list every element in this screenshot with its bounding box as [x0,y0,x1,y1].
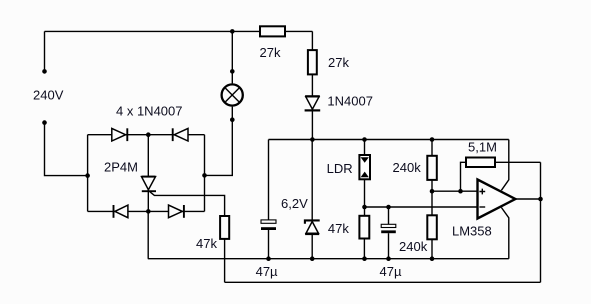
node lamp top terminal [230,69,235,74]
svg-text:47µ: 47µ [256,264,278,279]
wire top bus [45,30,313,32]
node plus line at feedback [458,189,463,194]
wire bridge left edge [87,135,89,212]
wire 240k bottom to ground bus [431,239,433,258]
svg-text:LM358: LM358 [452,223,492,238]
node inverting line at cap2 [386,205,391,210]
node V+ rail at zener [310,137,315,142]
node terminal 240V bottom [42,120,47,125]
node bridge bottom center [146,209,151,214]
node ground bus cap1 [266,256,271,261]
svg-text:240V: 240V [33,87,64,102]
node inverting line at LDR [362,205,367,210]
svg-text:5,1M: 5,1M [468,139,497,154]
diode D2 bridge top-right [173,128,188,141]
node terminal 240V top [42,69,47,74]
svg-text:4 x 1N4007: 4 x 1N4007 [116,104,183,119]
node ground bus zener [310,256,315,261]
wire left terminal drop [44,31,46,71]
node ground bus 47k2 [362,256,367,261]
resistor R1 27k horizontal [260,26,285,36]
wire thyristor cathode to bottom bus [147,211,149,258]
wire op-amp output [515,198,540,200]
wire lamp branch lower to bridge right [205,107,233,176]
svg-text:2P4M: 2P4M [104,159,138,174]
wire output drop [540,162,542,282]
wire LDR to 47k2 [364,179,366,216]
node junction top bus lamp [230,29,235,34]
wire zener to ground bus [311,234,313,259]
diode D4 bridge bottom-right [169,205,184,218]
wire LDR branch [364,140,366,156]
node bridge right mid [202,173,207,178]
svg-text:47µ: 47µ [380,264,402,279]
wire cap1 to ground bus [268,230,270,259]
thyristor Q1 2P4M [142,177,157,192]
wire non-inverting input line [432,190,478,192]
resistor R3 47k gate [220,216,229,239]
wire inverting input line [365,206,478,208]
wire feedback resistor left leg [461,162,467,191]
wire gate from thyristor to 47k [150,192,225,216]
wire op-amp V+ pin [501,140,508,191]
capacitor C1 47u [261,220,276,230]
node output [538,197,543,202]
wire 240k top branch [431,140,433,156]
diode D5 1N4007 series [305,96,321,110]
capacitor C2 47u [381,224,396,233]
resistor R4 47k divider [359,216,369,239]
wire 47k bottom to feedback bus [224,239,226,282]
svg-text:1N4007: 1N4007 [327,94,373,109]
node V+ rail at LDR [362,137,367,142]
resistor R5 240k top [427,156,437,180]
node ground bus 240k [430,256,435,261]
diode D3 bridge bottom-left [114,205,128,218]
wire 240k bottom branch [431,191,433,215]
node bridge left mid [85,173,90,178]
wire bridge bottom edge [88,210,205,212]
wire 240k top to plus node [431,180,433,191]
wire right branch down from top bus [311,31,313,139]
wire cap2 to ground bus [388,233,390,259]
zener diode Z1 6,2V [305,220,320,234]
wire feedback resistor right to output [495,161,541,163]
svg-text:6,2V: 6,2V [281,196,308,211]
svg-text:47k: 47k [196,236,217,251]
wire bridge top edge [88,134,205,136]
wire 47k2 to ground bus [363,239,365,259]
wire V+ rail [269,139,509,141]
resistor R6 240k bottom [427,215,437,239]
resistor R2 27k vertical [308,50,317,74]
resistor R7 5,1M feedback [466,158,495,168]
lamp [222,84,243,105]
svg-text:240k: 240k [393,160,422,175]
node V+ rail at 240k [430,137,435,142]
svg-text:LDR: LDR [327,161,353,176]
wire feedback bottom bus [225,281,541,283]
node bridge top center [146,132,151,137]
op-amp U1 LM358 [478,180,516,219]
svg-text:240k: 240k [399,239,428,254]
wire thyristor vertical [147,135,149,212]
node ground bus cap2 [386,256,391,261]
node lamp bottom terminal [230,117,235,122]
wire cap2 branch [388,207,390,224]
wire bottom ground bus [148,258,509,260]
wire op-amp V- pin [501,208,508,259]
svg-text:47k: 47k [328,221,349,236]
wire lamp branch upper [231,31,233,83]
LDR photoresistor [359,155,370,179]
svg-text:27k: 27k [260,45,281,60]
wire cap1 branch [268,140,270,221]
wire from lower terminal to bridge left [45,123,88,176]
wire zener branch [311,140,313,222]
svg-text:27k: 27k [328,55,349,70]
node plus line at 240k [430,189,435,194]
diode D1 bridge top-left [112,128,128,141]
wire bridge right edge [204,135,206,212]
